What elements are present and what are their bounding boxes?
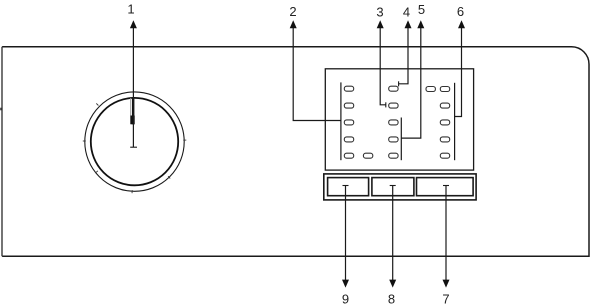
svg-text:2: 2 [289, 4, 296, 19]
knob tick marks [83, 103, 187, 193]
button bar [324, 174, 476, 200]
LED C5 [440, 153, 449, 158]
knob pointer [130, 97, 134, 124]
LED A1 [344, 86, 353, 91]
LED A3 [344, 120, 353, 125]
knob inner circle [91, 98, 178, 185]
callout 3 tick [385, 102, 387, 107]
callout 8 line [392, 186, 394, 281]
callout 7 line [445, 186, 447, 281]
callout 2 line [293, 22, 341, 121]
callout 4 arrow [405, 20, 412, 28]
LED B4 [389, 137, 398, 142]
LED B5 [389, 153, 398, 158]
LED A4 [344, 137, 353, 142]
callout 7 tick [443, 185, 449, 187]
callout 9 arrow [342, 280, 349, 288]
callout 6 arrow [458, 20, 465, 28]
LED C3 [440, 120, 449, 125]
callout 4 line [399, 22, 408, 84]
callout 6 line [455, 22, 462, 117]
svg-text:8: 8 [388, 291, 395, 306]
callout 4 tick [398, 81, 400, 86]
button 1 [328, 178, 369, 196]
LED A6 [363, 153, 372, 158]
LED C1 [440, 87, 449, 92]
callout 9 tick [343, 185, 349, 187]
control panel left edge [1, 47, 3, 256]
callout 9 line [345, 186, 347, 281]
callout 3 arrow [377, 20, 384, 28]
bracket left group [340, 82, 342, 160]
callout 8 tick [390, 185, 396, 187]
svg-text:9: 9 [342, 291, 349, 306]
LED B2 [389, 103, 398, 108]
knob outer ring [85, 92, 184, 191]
callout 8 arrow [389, 280, 396, 288]
LED C0 [426, 87, 435, 92]
button 2 [372, 178, 414, 196]
bracket right group [454, 83, 456, 160]
LED B3 [389, 120, 398, 125]
LED C2 [440, 103, 449, 108]
svg-text:7: 7 [442, 291, 449, 306]
callout 7 arrow [443, 280, 450, 288]
callout 3 line [380, 22, 386, 105]
indicator panel box [325, 69, 473, 170]
button 3 [417, 178, 474, 196]
svg-text:3: 3 [376, 4, 383, 19]
LED A2 [344, 103, 353, 108]
LED C4 [440, 137, 449, 142]
LED A5 [344, 153, 353, 158]
callout 1 line [132, 22, 134, 147]
svg-text:6: 6 [457, 4, 464, 19]
callout 2 arrow [290, 20, 297, 28]
left edge hinge nub [0, 108, 2, 111]
callout 5 line [401, 22, 421, 138]
callout 1 center dash [130, 146, 137, 148]
svg-text:5: 5 [418, 2, 425, 17]
control panel outline [2, 47, 589, 256]
callout 1 arrow [130, 20, 137, 28]
LED B1 [389, 86, 398, 91]
bracket middle group [400, 118, 402, 161]
callout 5 arrow [417, 20, 424, 28]
svg-text:4: 4 [403, 4, 410, 19]
svg-text:1: 1 [127, 2, 134, 17]
